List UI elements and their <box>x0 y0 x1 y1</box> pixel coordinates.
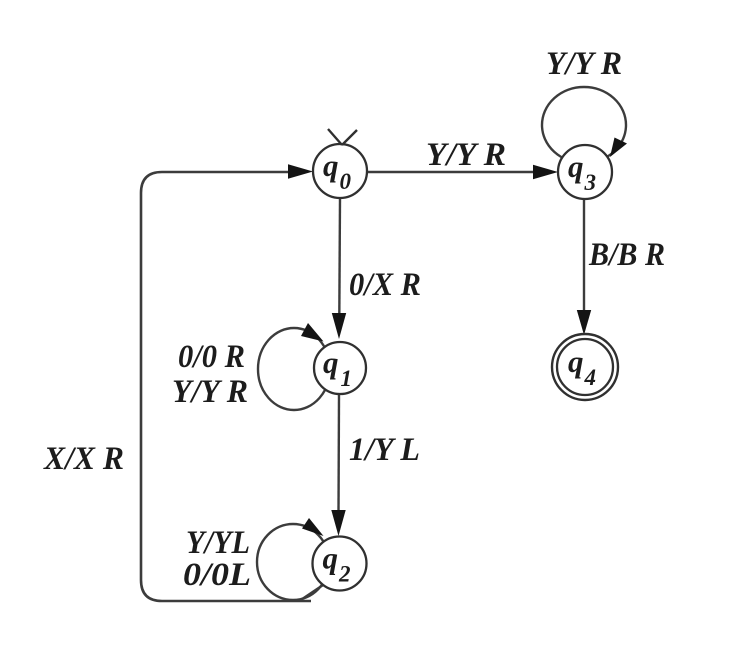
state q4 (accepting, double circle) <box>552 334 618 400</box>
arrowhead into q4 <box>577 310 591 335</box>
arrowhead into q3 <box>533 165 558 179</box>
wire q0 to q1 <box>338 198 341 318</box>
svg-text:3: 3 <box>584 170 597 195</box>
arrowhead q1 self-loop <box>301 323 324 342</box>
svg-text:q: q <box>323 345 339 380</box>
start marker on q0 <box>328 129 357 145</box>
wire q0 to q3 <box>367 171 536 173</box>
state q0 <box>313 144 367 198</box>
arrowhead into q2 <box>331 510 345 536</box>
arrowhead into q1 <box>332 313 346 339</box>
svg-text:0: 0 <box>340 169 352 194</box>
svg-text:Y/Y R: Y/Y R <box>172 374 248 410</box>
wire q3 to q4 <box>583 199 585 318</box>
svg-text:4: 4 <box>584 365 597 390</box>
svg-text:2: 2 <box>338 562 351 587</box>
svg-text:1: 1 <box>341 366 353 391</box>
svg-text:0/0 R: 0/0 R <box>178 339 245 375</box>
state q2 <box>313 537 367 591</box>
arrowhead q2 self-loop <box>302 518 324 536</box>
state q1 <box>314 342 366 394</box>
svg-text:Y/YL: Y/YL <box>186 525 250 561</box>
svg-text:Y/Y R: Y/Y R <box>426 137 506 173</box>
svg-text:B/B R: B/B R <box>588 237 665 273</box>
wire q3 self-loop <box>542 87 626 163</box>
arrowhead q3 self-loop <box>610 138 627 158</box>
wire q2 self-loop <box>257 524 329 600</box>
svg-text:X/X R: X/X R <box>43 441 124 477</box>
wire q1 to q2 <box>337 394 340 514</box>
wire feedback q2 to q0 <box>300 583 326 601</box>
svg-text:q: q <box>568 149 584 184</box>
svg-text:q: q <box>323 541 339 576</box>
svg-text:Y/Y R: Y/Y R <box>546 46 622 82</box>
svg-text:0/0L: 0/0L <box>183 557 251 593</box>
svg-text:0/X R: 0/X R <box>349 267 421 303</box>
arrowhead into q0 <box>288 164 313 178</box>
wire q1 self-loop <box>258 328 330 410</box>
svg-text:q: q <box>568 344 584 379</box>
svg-text:q: q <box>323 148 339 183</box>
svg-text:1/Y L: 1/Y L <box>349 432 420 468</box>
state q3 <box>558 145 612 199</box>
